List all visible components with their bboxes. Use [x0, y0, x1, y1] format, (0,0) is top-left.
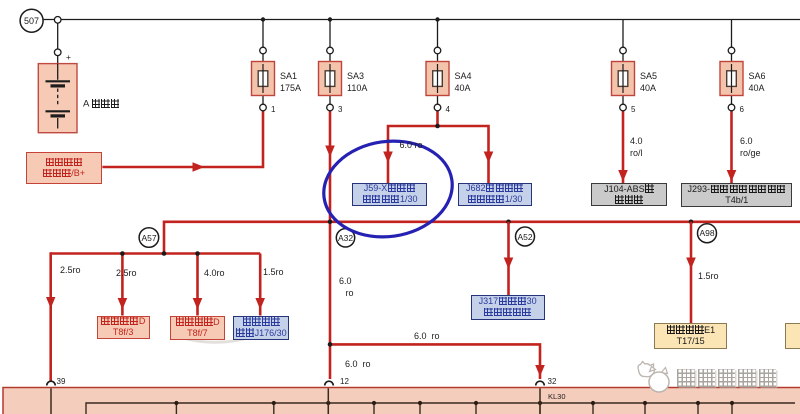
- KL30 net label: [548, 393, 566, 401]
- switch box 点火开关D T8f/3: [97, 316, 150, 339]
- fuse SA4 body: [426, 62, 449, 96]
- wire label 6.0 ro (A32 drop): [339, 277, 352, 286]
- fuse SA3 label: [347, 72, 364, 81]
- terminal 39 arc: [47, 381, 56, 385]
- terminal SA5 pin5: [620, 104, 627, 111]
- fuse SA5 label: [640, 72, 657, 81]
- wire label 1.5ro (A98 drop): [698, 272, 719, 281]
- wire drop to ignition switch T8f/7: [196, 254, 199, 316]
- wire label 1.5ro (J176 drop): [263, 268, 284, 277]
- fuse SA3 body: [319, 62, 342, 96]
- highlight ellipse around J59: [318, 133, 459, 245]
- KL30 inner bus wire: [86, 403, 795, 414]
- junction at terminal12 column: [328, 342, 333, 347]
- wire fuse SA6 drop: [731, 20, 733, 105]
- partial box right edge: [785, 323, 800, 349]
- wire SA6 pin6 to J293 (red): [730, 111, 733, 184]
- control unit box J293-散热器风扇控制单元 T4b/1: [681, 183, 792, 207]
- arrow into T8f/7: [193, 298, 203, 310]
- pin 6 label: [740, 106, 744, 114]
- wire drop to terminal 39: [49, 252, 52, 381]
- wire SA5 pin5 to J104 (red): [622, 111, 625, 184]
- fuse SA6 label: [749, 72, 766, 81]
- pin 1 label: [271, 106, 275, 114]
- relay box J682接线端供电继电器1/30: [458, 183, 532, 206]
- terminal 12 label: [340, 378, 349, 386]
- arrow into J293: [727, 170, 737, 182]
- relay box 燃油泵继电器J176/30: [233, 316, 289, 340]
- wire A52 drop to J317: [507, 222, 510, 295]
- fuse SA4 label: [455, 72, 472, 81]
- battery plus sign: [66, 53, 71, 62]
- main distribution wire 30 (red): [51, 222, 800, 254]
- terminal SA4 pin4: [434, 104, 441, 111]
- battery A label: [83, 99, 120, 109]
- terminal circle battery +: [54, 49, 61, 56]
- wire label 2.5ro (terminal 39 drop): [60, 266, 81, 275]
- fuse SA6 body: [720, 62, 743, 96]
- wire label 6.0 ro at SA4 split: [400, 141, 423, 150]
- junction top bus at SA1: [261, 17, 265, 21]
- wire SA3 pin3 down to terminal 12 (red): [329, 111, 332, 379]
- terminal SA1 pin1: [260, 104, 267, 111]
- terminal SA6 pin6: [728, 104, 735, 111]
- node A52 label: [514, 233, 537, 242]
- watermark cat icon: [632, 358, 674, 396]
- arrow on SA3 wire: [325, 146, 335, 158]
- junction A57 branch left: [120, 251, 125, 256]
- node A57: [139, 228, 159, 248]
- wire drop to ignition switch T8f/3: [121, 254, 124, 316]
- arrow into J176: [255, 298, 265, 310]
- wire A98 drop to light switch E1: [690, 222, 693, 323]
- node A32 label: [334, 234, 357, 243]
- terminal 39 label: [57, 378, 66, 386]
- wire label 4.0ro (T8f/7 drop): [204, 269, 225, 278]
- junction main wire at SA3 column: [328, 220, 333, 225]
- ground strip KL30 band: [3, 388, 800, 414]
- wire label 6.0 ro/ge: [740, 137, 753, 146]
- terminal circle at node 507: [54, 17, 61, 24]
- watermark text 爱车大家说: [676, 369, 777, 389]
- battery A box: [38, 64, 77, 133]
- node A52: [516, 227, 535, 246]
- fuse SA1 label: [280, 72, 297, 81]
- junction top bus at SA3: [328, 17, 332, 21]
- terminal SA5 top: [620, 47, 627, 54]
- generator box 三相交流发电机/B+: [26, 152, 101, 184]
- wire label 2.5ro (T8f/3 drop): [116, 269, 137, 278]
- junction main wire at A98: [689, 220, 694, 225]
- wire generator to SA1 pin1 (red): [102, 111, 263, 167]
- top supply bus wire: [43, 19, 800, 21]
- KL30 bus junctions: [174, 401, 734, 405]
- terminal SA3 top: [327, 47, 334, 54]
- control unit box J104-ABS控制单元: [591, 183, 667, 206]
- node A98: [698, 224, 717, 243]
- relay box J317总线端30 供电继电器: [471, 295, 545, 320]
- node A98 label: [696, 229, 719, 238]
- junction top bus at SA4: [435, 17, 439, 21]
- wire branch to terminal 32 (red): [330, 344, 540, 379]
- switch box 点火开关D T8f/7: [170, 316, 225, 340]
- arrow into J682: [484, 152, 494, 164]
- junction A57 branch mid: [162, 251, 167, 256]
- terminal SA6 top: [728, 47, 735, 54]
- arrow into T8f/3: [118, 298, 128, 310]
- wire label 6.0 ro (branch to 32): [414, 332, 440, 341]
- node A57 label: [137, 234, 161, 243]
- node 507 label: [20, 17, 43, 26]
- wire below terminal 12: [327, 388, 329, 414]
- faint watermark arc: [172, 335, 253, 343]
- wire label 6.0 ro (above terminal 12): [345, 360, 371, 369]
- arrow into terminal 32: [535, 365, 545, 377]
- wire below terminal 39: [50, 388, 52, 414]
- switch box 车灯开关E1 T17/15: [654, 323, 727, 349]
- terminal SA3 pin3: [327, 104, 334, 111]
- wire fuse SA1 drop: [262, 20, 264, 105]
- pin 4 label: [446, 106, 450, 114]
- wire label 4.0 ro/l: [630, 137, 643, 146]
- wire below terminal 32: [539, 388, 541, 414]
- terminal 32 arc: [536, 381, 545, 385]
- arrow on generator wire: [193, 162, 205, 171]
- node A32: [336, 229, 354, 247]
- wire fuse SA3 drop: [329, 20, 331, 105]
- battery cell symbol: [46, 64, 71, 129]
- terminal SA1 top: [260, 47, 267, 54]
- KL30 bus taps: [176, 403, 732, 414]
- wire fuse SA5 drop: [622, 20, 624, 105]
- pin 5 label: [631, 106, 635, 114]
- pin 3 label: [338, 106, 342, 114]
- wire fuse SA4 drop: [437, 20, 439, 105]
- wire drop to fuel pump relay J176: [259, 254, 262, 316]
- wire battery drop: [57, 20, 59, 64]
- arrow into J317: [504, 258, 514, 270]
- node 507: [20, 9, 43, 32]
- wire SA4 pin4 split to J59 and J682 (red): [388, 111, 489, 184]
- fuse SA5 body: [612, 62, 635, 96]
- arrow on E1 wire: [686, 258, 696, 270]
- junction main wire at A52: [506, 220, 511, 225]
- junction SA4 split: [435, 124, 440, 129]
- terminal 32 label: [548, 378, 557, 386]
- terminal SA4 top: [434, 47, 441, 54]
- junction A57 branch right: [195, 251, 200, 256]
- arrow into J59: [383, 152, 393, 164]
- fuse SA1 body: [252, 62, 275, 96]
- arrow into J104: [618, 170, 628, 182]
- arrow on terminal39 wire: [46, 297, 55, 309]
- relay box J59-X触点卸载继电器1/30: [352, 183, 427, 206]
- terminal 12 arc: [325, 381, 334, 385]
